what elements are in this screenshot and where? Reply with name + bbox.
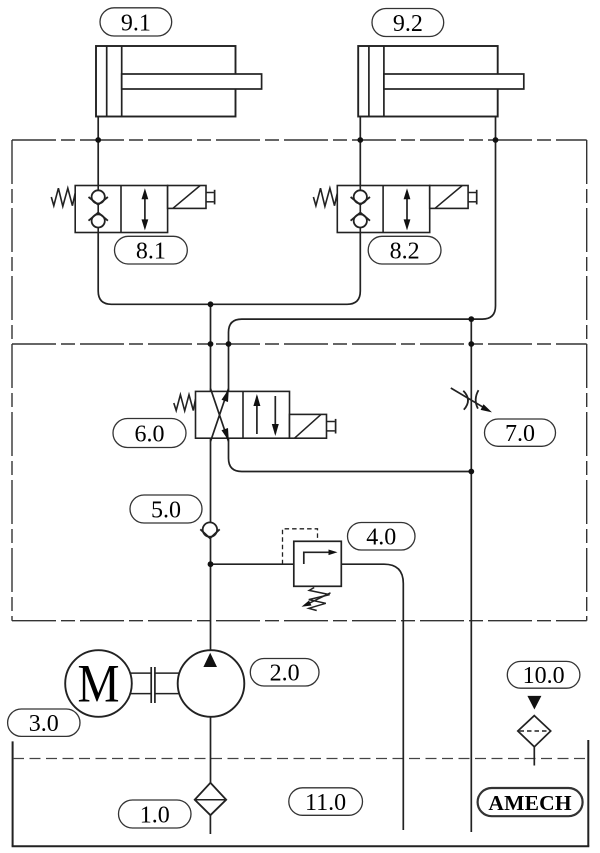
svg-text:9.2: 9.2: [393, 11, 423, 37]
svg-text:9.1: 9.1: [121, 10, 151, 36]
svg-text:4.0: 4.0: [366, 525, 396, 551]
svg-text:10.0: 10.0: [523, 663, 565, 689]
svg-text:7.0: 7.0: [505, 421, 535, 447]
svg-text:2.0: 2.0: [270, 661, 300, 687]
svg-text:5.0: 5.0: [151, 497, 181, 523]
svg-text:3.0: 3.0: [29, 711, 59, 737]
svg-text:1.0: 1.0: [140, 802, 170, 828]
svg-text:AMECH: AMECH: [488, 791, 571, 815]
svg-text:6.0: 6.0: [135, 422, 165, 448]
svg-text:8.1: 8.1: [136, 239, 166, 265]
svg-text:11.0: 11.0: [305, 790, 346, 816]
svg-text:M: M: [78, 653, 120, 713]
svg-text:8.2: 8.2: [390, 239, 420, 265]
